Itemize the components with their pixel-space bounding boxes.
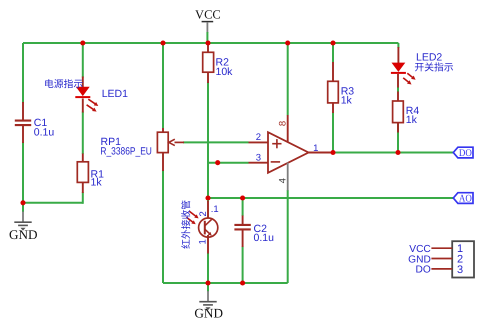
resistor R1 bbox=[77, 154, 88, 194]
svg-text:4: 4 bbox=[277, 178, 288, 183]
capacitor C2 bbox=[234, 216, 250, 248]
wire GND node to R1 bottom bbox=[23, 192, 83, 204]
wire RP1 bottom to ground rail bbox=[162, 170, 164, 283]
label pin 8 bbox=[277, 121, 288, 126]
label R1 value bbox=[91, 168, 105, 188]
label C1 value bbox=[34, 117, 55, 138]
svg-text:0.1u: 0.1u bbox=[34, 127, 55, 139]
svg-text:LED2: LED2 bbox=[416, 52, 442, 64]
LED LED2 bbox=[391, 47, 416, 88]
wire opamp pin8 supply bbox=[287, 43, 289, 115]
wire GND stub bottom bbox=[207, 283, 209, 292]
svg-text:VCC: VCC bbox=[195, 8, 221, 22]
svg-text:.1: .1 bbox=[211, 204, 219, 215]
svg-text:R_3386P_EU: R_3386P_EU bbox=[100, 146, 151, 158]
junction VCC rail / RP1 bbox=[160, 40, 165, 45]
svg-text:0.1u: 0.1u bbox=[254, 232, 275, 244]
junction ground rail / C2 bbox=[240, 280, 245, 285]
junction VCC rail / LED1 bbox=[80, 40, 85, 45]
wire opamp pin4 to ground rail bbox=[287, 190, 289, 283]
label pin .1 bbox=[211, 204, 219, 215]
wire LED1 anode bbox=[82, 43, 84, 78]
label LED2 bbox=[416, 52, 442, 64]
svg-text:AO: AO bbox=[459, 194, 472, 205]
svg-text:3: 3 bbox=[256, 153, 261, 164]
junction node DO / R4 bbox=[395, 150, 400, 155]
label R4 value bbox=[406, 105, 420, 126]
label pin 2 bbox=[256, 132, 261, 143]
label sensor pin 2 bbox=[198, 211, 209, 216]
ground symbol bottom bbox=[194, 291, 223, 321]
label pin 3 bbox=[256, 153, 261, 164]
svg-text:GND: GND bbox=[408, 254, 431, 265]
label pin 1 bbox=[313, 143, 318, 154]
wire sensor emitter down bbox=[207, 253, 209, 283]
junction node AO / sensor bbox=[205, 195, 210, 200]
wire LED2 to R4 bbox=[397, 87, 399, 92]
wire pin3 tap bbox=[208, 162, 249, 164]
op-amp U1 comparator bbox=[249, 115, 334, 191]
LED LED1 bbox=[75, 77, 98, 113]
wire R2 bottom column bbox=[207, 82, 209, 202]
svg-text:1k: 1k bbox=[406, 114, 418, 126]
label R2 value bbox=[216, 57, 234, 78]
svg-text:DO: DO bbox=[459, 148, 472, 159]
label 红外接收管 bbox=[181, 200, 190, 248]
resistor R3 bbox=[328, 62, 339, 113]
junction left ground node bbox=[20, 200, 25, 205]
net port DO bbox=[453, 147, 473, 159]
svg-text:LED1: LED1 bbox=[102, 88, 128, 100]
svg-text:2: 2 bbox=[198, 211, 209, 216]
label 开关指示 bbox=[415, 62, 453, 71]
junction ground rail / sensor bbox=[205, 280, 210, 285]
wire wiper to pin2 bbox=[183, 141, 249, 143]
label RP1 value bbox=[100, 136, 151, 157]
label C2 value bbox=[254, 223, 275, 244]
wire C2 bottom bbox=[242, 247, 244, 284]
svg-text:1: 1 bbox=[313, 143, 318, 154]
phototransistor Q1 infrared receiver bbox=[186, 201, 217, 254]
junction VCC rail / pin 8 bbox=[285, 40, 290, 45]
ground symbol left bbox=[9, 212, 38, 242]
resistor R4 bbox=[393, 92, 404, 133]
wire VCC top rail bbox=[23, 42, 398, 44]
svg-text:GND: GND bbox=[194, 306, 223, 321]
label R3 value bbox=[341, 86, 355, 107]
label P1 pin names bbox=[408, 244, 431, 276]
wire R3 bottom bbox=[332, 113, 334, 153]
label sensor pin 1 bbox=[197, 239, 208, 244]
svg-text:1: 1 bbox=[197, 239, 208, 244]
svg-text:1k: 1k bbox=[341, 95, 353, 107]
wire C2 top bbox=[242, 198, 244, 216]
svg-text:10k: 10k bbox=[216, 66, 234, 78]
resistor R2 bbox=[203, 43, 214, 83]
wire R4 bottom bbox=[397, 123, 399, 153]
svg-text:1k: 1k bbox=[91, 176, 103, 188]
junction pin 3 tap bbox=[215, 160, 220, 165]
wire GND stub left bbox=[22, 203, 24, 212]
wire AO row bbox=[208, 197, 453, 199]
potentiometer RP1 bbox=[157, 128, 184, 171]
wire C1 bottom to GND node bbox=[22, 142, 24, 203]
wire bottom ground rail bbox=[163, 282, 288, 284]
wire R3 top bbox=[332, 43, 334, 63]
connector P1 header bbox=[431, 241, 474, 277]
junction VCC rail / R3 bbox=[330, 40, 335, 45]
svg-text:3: 3 bbox=[457, 264, 463, 276]
svg-text:8: 8 bbox=[277, 121, 288, 126]
label P1 pin numbers bbox=[457, 243, 463, 276]
junction node DO / R3 bbox=[330, 150, 335, 155]
junction VCC rail / R2 bbox=[205, 40, 210, 45]
junction node AO / C2 bbox=[240, 195, 245, 200]
wire RP1 top bbox=[162, 43, 164, 128]
wire left column to C1 bbox=[22, 43, 24, 103]
svg-text:DO: DO bbox=[416, 265, 431, 276]
wire LED1 cathode to R1 bbox=[82, 112, 84, 154]
svg-text:GND: GND bbox=[9, 227, 38, 242]
power flag VCC bbox=[195, 8, 221, 43]
capacitor C1 bbox=[15, 102, 31, 143]
wire output row to DO bbox=[333, 152, 453, 154]
label pin 4 bbox=[277, 178, 288, 183]
wire LED2 top bbox=[397, 43, 399, 48]
svg-text:2: 2 bbox=[256, 132, 261, 143]
net port AO bbox=[453, 193, 473, 205]
label 电源指示 bbox=[45, 79, 82, 88]
label LED1 bbox=[102, 88, 128, 100]
